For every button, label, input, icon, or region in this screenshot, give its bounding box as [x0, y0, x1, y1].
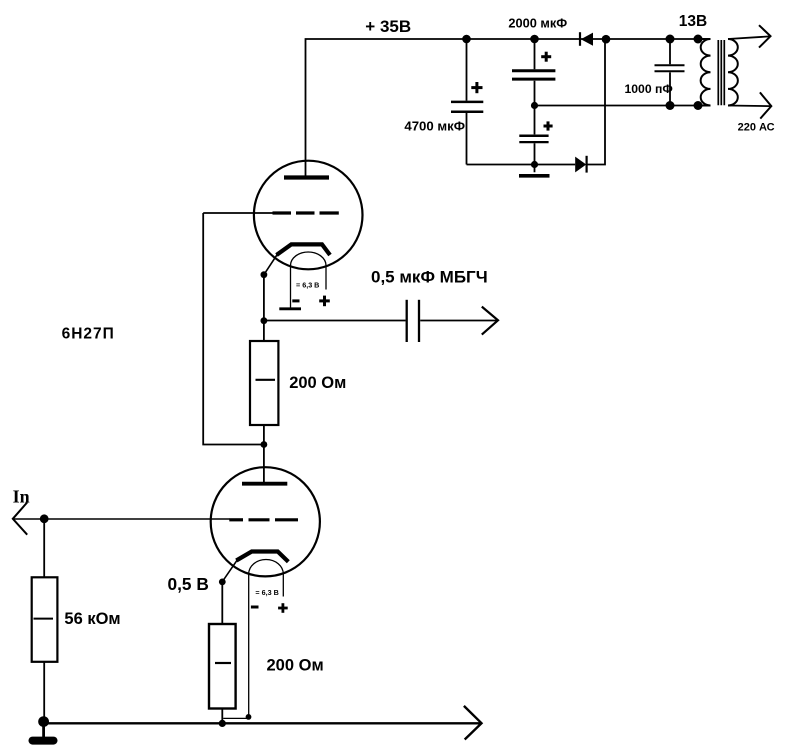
svg-text:220 АС: 220 АС [738, 122, 775, 134]
svg-text:+ 35В: + 35В [365, 17, 411, 36]
svg-text:0,5 В: 0,5 В [168, 574, 209, 594]
svg-text:6Н27П: 6Н27П [62, 326, 115, 343]
svg-text:200 Ом: 200 Ом [289, 374, 346, 392]
svg-text:13В: 13В [679, 13, 707, 30]
svg-text:2000 мкФ: 2000 мкФ [508, 15, 567, 30]
svg-text:4700 мкФ: 4700 мкФ [404, 119, 465, 134]
svg-text:= 6,3 В: = 6,3 В [296, 281, 319, 290]
svg-text:200 Ом: 200 Ом [267, 657, 324, 675]
svg-text:1000 пФ: 1000 пФ [625, 82, 673, 96]
svg-text:0,5 мкФ МБГЧ: 0,5 мкФ МБГЧ [371, 268, 488, 287]
svg-text:= 6,3 В: = 6,3 В [255, 588, 278, 597]
svg-text:In: In [13, 486, 30, 506]
svg-text:56 кОм: 56 кОм [64, 610, 120, 628]
